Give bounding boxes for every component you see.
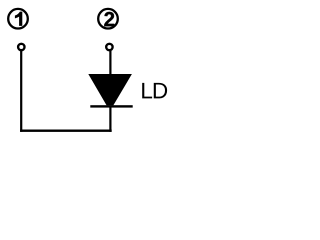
wire pin2 to diode anode (109, 51, 111, 75)
node 1 circled terminal number (8, 9, 28, 29)
terminal pin 1 (open circle) (18, 44, 24, 50)
diode LD anode triangle (88, 74, 132, 105)
wire diode cathode to bottom rail (109, 107, 111, 132)
diode LD cathode bar (90, 105, 132, 107)
wire bottom rail (20, 130, 112, 132)
terminal pin 2 (open circle) (106, 44, 112, 50)
node 2 circled terminal number (98, 9, 118, 29)
label LD (142, 83, 167, 98)
wire pin1 to bottom rail (20, 51, 22, 132)
